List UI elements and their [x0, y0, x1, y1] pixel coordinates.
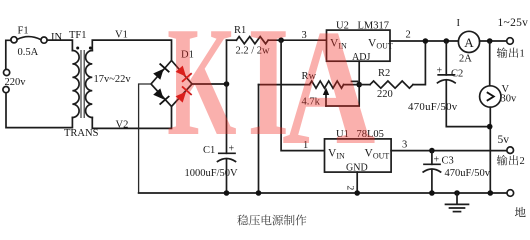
svg-text:0.5A: 0.5A: [18, 47, 39, 58]
fuse F1: [11, 37, 47, 44]
junction U1 GND ground: [354, 190, 360, 196]
wire fuse to transformer: [47, 40, 72, 50]
svg-text:1~25v: 1~25v: [498, 17, 529, 29]
caption text: [237, 215, 306, 226]
wire U2 output: [390, 40, 458, 42]
junction C2 return: [487, 124, 493, 130]
label ground: [515, 207, 526, 217]
svg-text:K: K: [167, 0, 237, 168]
capacitor C3 plus plate: [424, 163, 440, 165]
junction ADJ node: [356, 82, 362, 88]
terminal output2: [507, 147, 514, 154]
transformer core: [81, 50, 84, 118]
wire feed to U1 input: [281, 40, 324, 150]
diode D1 lower-left: [153, 88, 169, 104]
junction C3 ground: [429, 190, 435, 196]
label output1: [497, 48, 525, 60]
terminal 220v upper: [4, 69, 10, 75]
svg-text:A: A: [464, 35, 474, 50]
wire ammeter to output1: [480, 40, 507, 42]
svg-text:220: 220: [377, 89, 393, 100]
svg-text:2: 2: [520, 156, 525, 167]
capacitor C2 curved plate: [438, 80, 456, 83]
svg-text:2: 2: [345, 186, 355, 191]
wire top-left mains segment: [6, 40, 11, 69]
transformer TF1 secondary winding: [86, 51, 93, 118]
wire C2 bottom lead: [446, 81, 489, 126]
ammeter A: [458, 31, 479, 52]
diode D1 lower-right red: [176, 86, 192, 102]
junction R2/output: [423, 38, 429, 44]
op-amp U1 78L05 box: [325, 139, 392, 172]
wire mains return: [6, 93, 72, 128]
wiper arrow Rw: [323, 88, 329, 107]
capacitor C1 plus plate: [219, 152, 235, 154]
junction bridge+/C1/R1: [224, 81, 230, 87]
wire U1 output: [391, 150, 507, 152]
svg-text:C2: C2: [451, 69, 463, 80]
wire R2 to output rail: [413, 41, 425, 85]
bridge D1 diamond: [151, 61, 192, 107]
wire C2 top lead: [445, 41, 447, 75]
svg-text:+: +: [434, 155, 440, 166]
junction R1/U2/78L05 feed: [278, 37, 284, 43]
op-amp U2 LM317 box: [327, 30, 391, 61]
capacitor C3 curved plate: [423, 169, 440, 172]
junction voltmeter ground: [488, 190, 494, 196]
watermark KIA: [167, 0, 376, 180]
capacitor C1 curved plate: [218, 159, 236, 162]
wire U2 ADJ pin: [358, 61, 360, 84]
svg-text:17v~22v: 17v~22v: [94, 74, 132, 85]
voltmeter V: [480, 86, 501, 107]
wire C3 top lead: [431, 151, 433, 165]
svg-text:R2: R2: [378, 68, 390, 79]
polarity dot primary: [76, 47, 79, 50]
svg-text:470uF/50v: 470uF/50v: [408, 101, 458, 113]
wire bridge positive output: [192, 83, 227, 85]
junction voltmeter top: [487, 38, 493, 44]
wire C1 top lead: [226, 84, 228, 153]
junction C2/output: [444, 38, 450, 44]
ground earth symbol: [446, 193, 469, 212]
svg-text:2A: 2A: [459, 54, 472, 65]
diode D1 upper-right red: [176, 66, 192, 82]
wire Rw left: [259, 84, 310, 86]
wire voltmeter top lead: [489, 41, 491, 86]
svg-text:470uF/50v: 470uF/50v: [445, 168, 491, 179]
wire C3 bottom lead: [431, 170, 433, 193]
wire V2: [92, 107, 171, 129]
wire C1 bottom lead: [226, 160, 228, 193]
wire Rw right to junction: [344, 84, 360, 86]
junction C1 ground: [224, 190, 230, 196]
svg-text:+: +: [437, 66, 443, 77]
svg-text:TF1: TF1: [69, 30, 87, 41]
polarity dot secondary: [89, 47, 92, 50]
svg-text:IN: IN: [51, 32, 62, 43]
svg-text:1000uF/50V: 1000uF/50V: [185, 168, 239, 179]
svg-text:1: 1: [520, 49, 525, 60]
terminal output1: [507, 38, 514, 45]
potentiometer Rw: [310, 81, 344, 88]
resistor R1: [236, 37, 268, 44]
junction C3/output2: [429, 148, 435, 154]
wire R1 to U2: [268, 39, 326, 41]
diode D1 upper-left: [153, 64, 169, 80]
wire voltmeter bottom lead: [489, 107, 491, 193]
svg-text:I: I: [457, 18, 461, 29]
resistor R2: [370, 81, 413, 88]
wire ADJ to R2: [359, 84, 370, 86]
svg-text:V2: V2: [116, 120, 129, 131]
svg-text:30v: 30v: [501, 94, 518, 105]
svg-text:5v: 5v: [498, 134, 510, 146]
junction earth stub: [454, 190, 460, 196]
wire wiper loop: [326, 85, 359, 106]
wiper tick: [352, 80, 358, 82]
wire to R1: [227, 39, 237, 41]
wire riser to R1 rail: [226, 40, 228, 84]
wire bridge negative to ground rail: [139, 84, 151, 193]
svg-text:A: A: [282, 0, 376, 180]
svg-text:V1: V1: [115, 30, 128, 41]
transformer TF1 primary winding: [72, 51, 79, 118]
wire V1: [92, 40, 171, 60]
svg-text:C3: C3: [442, 156, 454, 167]
label output2: [497, 155, 525, 167]
terminal 220v lower: [3, 87, 9, 93]
svg-text:F1: F1: [18, 26, 29, 37]
svg-text:TRANS: TRANS: [64, 128, 99, 139]
capacitor C2 plus plate: [438, 74, 454, 76]
svg-text:2: 2: [406, 30, 411, 41]
svg-text:3: 3: [402, 140, 407, 151]
wire ground rail: [139, 192, 507, 194]
wire U1 GND pin: [356, 172, 358, 193]
wire ground riser for Rw: [258, 85, 260, 193]
terminal ground: [507, 190, 514, 197]
junction Rw ground: [256, 190, 262, 196]
